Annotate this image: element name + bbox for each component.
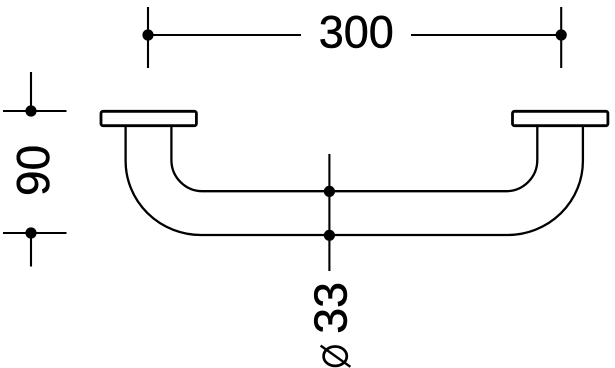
dimension 300: left tick (147, 7, 149, 68)
svg-text:300: 300 (319, 7, 394, 58)
dimension ø33: diameter symbol slash (321, 346, 351, 367)
dimension ø33: vertical line (328, 154, 330, 271)
dimension 90: bottom dot (25, 227, 36, 238)
dimension ø33: upper dot (324, 186, 335, 197)
dimension 300: right tick (560, 7, 562, 68)
dimension 300: right horizontal segment (411, 34, 561, 36)
dimension ø33: lower dot (324, 230, 335, 241)
svg-text:33: 33 (305, 282, 357, 334)
svg-text:90: 90 (7, 145, 59, 196)
grab bar inner profile (171, 126, 537, 191)
left wall flange (101, 111, 196, 125)
dimension 300: left dot (142, 29, 153, 40)
dimension 90: top dot (25, 105, 36, 116)
dimension 90: top tick (3, 110, 67, 112)
dimension 90: top vertical segment (30, 72, 32, 111)
dimension 300: right dot (556, 29, 567, 40)
dimension 300: left horizontal segment (148, 34, 301, 36)
right wall flange (513, 111, 608, 125)
dimension 90: bottom vertical segment (30, 233, 32, 267)
grab bar outer profile (126, 126, 583, 235)
dimension 90: bottom tick (3, 232, 67, 234)
dimension ø33: diameter symbol circle (324, 347, 347, 366)
